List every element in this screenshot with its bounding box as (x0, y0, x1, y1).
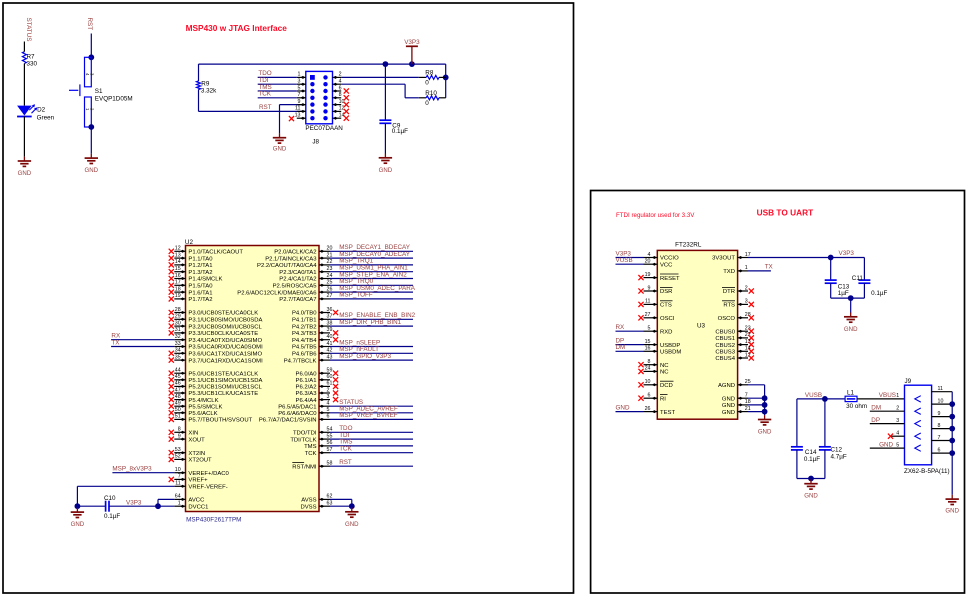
wire AVCC down (158, 499, 174, 506)
svg-text:18: 18 (175, 286, 181, 292)
svg-text:0.1µF: 0.1µF (804, 456, 820, 463)
svg-text:19: 19 (175, 293, 181, 299)
svg-text:MSP430F2617TPM: MSP430F2617TPM (186, 516, 241, 523)
svg-text:P5.5/SMCLK: P5.5/SMCLK (188, 404, 222, 410)
U2 pin 15 P1.3/TA2 (169, 266, 213, 276)
svg-text:XIN: XIN (188, 431, 198, 437)
title MSP430 w JTAG Interface (186, 23, 288, 33)
svg-text:DSR: DSR (660, 289, 672, 295)
svg-text:NC: NC (660, 370, 669, 376)
svg-text:USBDM: USBDM (660, 350, 681, 356)
svg-text:DP: DP (871, 417, 880, 424)
U2 pin 34 P3.6/UCA1TXD/UCA1SIMO (169, 348, 263, 358)
svg-text:GND: GND (722, 396, 735, 402)
U3 pin 16 USBDM net DM (616, 344, 682, 355)
svg-text:7: 7 (745, 393, 748, 399)
svg-text:47: 47 (175, 387, 181, 393)
svg-text:L1: L1 (847, 390, 855, 397)
svg-text:EVQP1D05M: EVQP1D05M (95, 95, 133, 102)
U3 pin 13 CBUS2 (715, 339, 754, 349)
svg-text:2: 2 (896, 406, 899, 412)
svg-text:RST: RST (86, 18, 93, 31)
svg-text:48: 48 (175, 394, 181, 400)
U2 pin 16 P1.4/SMCLK (169, 273, 223, 283)
svg-text:4.7µF: 4.7µF (831, 454, 847, 461)
svg-text:4: 4 (648, 252, 651, 258)
svg-text:46: 46 (175, 381, 181, 387)
no-connect X J8 pin 13 (289, 116, 294, 121)
svg-text:GND: GND (722, 403, 735, 409)
connector J8 body (306, 71, 333, 123)
LED D2 (17, 104, 54, 121)
svg-text:P3.6/UCA1TXD/UCA1SIMO: P3.6/UCA1TXD/UCA1SIMO (188, 352, 262, 358)
U2 pin 58 RST/NMI net RST (292, 459, 413, 470)
svg-text:P5.7/TBOUTH/SVSOUT: P5.7/TBOUTH/SVSOUT (188, 418, 252, 424)
wire TX to U2 P3.5 (111, 339, 174, 346)
svg-text:8: 8 (339, 92, 342, 98)
svg-text:GND: GND (379, 167, 393, 174)
svg-text:26: 26 (645, 406, 651, 412)
svg-text:TDI/TCLK: TDI/TCLK (290, 437, 316, 443)
no-connect X J8 pins 6-14 (344, 88, 349, 120)
svg-text:7: 7 (298, 92, 301, 98)
svg-text:12: 12 (175, 246, 181, 252)
svg-text:60: 60 (327, 374, 333, 380)
svg-text:9: 9 (298, 99, 301, 105)
U3 pin 7 GND (722, 393, 768, 403)
U3 pin 21 GND (722, 406, 768, 416)
ground GND (LED) (18, 157, 32, 177)
svg-text:P5.6/ACLK: P5.6/ACLK (188, 411, 217, 417)
svg-text:P6.7/A7/DAC1/SVSIN: P6.7/A7/DAC1/SVSIN (259, 418, 317, 424)
U2 pin 4 P6.5/A5/DAC1 net STATUS (278, 399, 413, 410)
ground GND (J8) (273, 133, 287, 152)
svg-text:VBUS: VBUS (879, 392, 896, 399)
svg-text:28: 28 (175, 307, 181, 313)
svg-text:11: 11 (175, 481, 181, 487)
svg-text:CBUS0: CBUS0 (715, 329, 735, 335)
svg-text:P6.4/A4: P6.4/A4 (296, 398, 318, 404)
U3 pin 9 DSR (638, 285, 672, 295)
svg-text:14: 14 (175, 259, 181, 265)
svg-text:GND: GND (273, 146, 287, 153)
wire STATUS to R7 (23, 42, 25, 52)
wire TCK (258, 91, 297, 98)
svg-text:RX: RX (616, 324, 626, 331)
svg-text:330: 330 (27, 60, 38, 67)
wire J9 pin 2 DM (870, 405, 905, 412)
svg-text:TXD: TXD (723, 269, 735, 275)
svg-text:P1.3/TA2: P1.3/TA2 (188, 270, 212, 276)
svg-text:3: 3 (745, 299, 748, 305)
svg-text:GND: GND (85, 167, 99, 174)
svg-text:6: 6 (648, 393, 651, 399)
svg-text:AVCC: AVCC (188, 498, 205, 504)
capacitor C9 (379, 64, 408, 153)
svg-text:RST: RST (339, 459, 352, 466)
U3 pin 26 TEST net GND (616, 404, 676, 415)
U2 pin 44 P5.0/UCB1STE/UCA1CLK (169, 368, 259, 378)
svg-text:VUSB: VUSB (616, 257, 633, 264)
svg-text:D2: D2 (37, 106, 46, 113)
resistor R7 (22, 52, 37, 68)
svg-text:0: 0 (425, 100, 429, 107)
U2 pin 59 P6.0/A0 (296, 368, 339, 378)
svg-text:50: 50 (175, 407, 181, 413)
U3 pin 1 TXD net TX (723, 264, 773, 275)
svg-text:15: 15 (645, 339, 651, 345)
svg-text:1: 1 (896, 393, 899, 399)
svg-text:C10: C10 (104, 495, 116, 502)
U2 pin 32 P3.4/UCA0TXD/UCA0SIMO (174, 334, 262, 344)
svg-text:0.1µF: 0.1µF (392, 128, 408, 135)
wire C14/C12 bottom (797, 478, 825, 480)
U3 pin 25 AGND (718, 379, 765, 415)
svg-text:2: 2 (327, 387, 330, 393)
wire C10 left (77, 505, 105, 507)
svg-text:U2: U2 (185, 239, 194, 246)
svg-text:DM: DM (616, 344, 626, 351)
svg-text:2: 2 (745, 285, 748, 291)
wire RST to J8 pin 11 (199, 104, 306, 111)
svg-text:6: 6 (339, 85, 342, 91)
svg-text:31: 31 (175, 327, 181, 333)
connector J9 right shield pins (932, 386, 953, 453)
U2 pin 50 P5.6/ACLK (169, 407, 218, 417)
left sheet border (3, 3, 574, 593)
svg-text:11: 11 (938, 386, 944, 392)
resistor R9 (197, 64, 218, 111)
svg-text:V3P3: V3P3 (839, 250, 855, 257)
junction C13/C11 GND (848, 295, 854, 301)
svg-text:P5.2/UCB1SOMI/UCB1SCL: P5.2/UCB1SOMI/UCB1SCL (188, 385, 262, 391)
U2 pin 5 P6.6/A6/DAC0 net MSP_ADEC_AVREF (278, 406, 413, 417)
svg-text:P6.5/A5/DAC1: P6.5/A5/DAC1 (278, 404, 316, 410)
U3 pin 3 RTS (722, 299, 754, 309)
U2 pin 53 XT2IN (169, 447, 205, 457)
junction C12 tap (822, 396, 828, 402)
label J8 (312, 139, 319, 146)
svg-text:2: 2 (339, 72, 342, 78)
U3 pin 18 GND (722, 399, 768, 409)
svg-text:5: 5 (648, 326, 651, 332)
svg-text:44: 44 (175, 368, 181, 374)
svg-text:MSP_GPIO_V3P3: MSP_GPIO_V3P3 (339, 353, 391, 360)
connector J8 pins (295, 72, 345, 121)
svg-text:53: 53 (175, 447, 181, 453)
svg-text:51: 51 (175, 414, 181, 420)
svg-text:PEC07DAAN: PEC07DAAN (305, 125, 343, 132)
svg-text:7: 7 (178, 474, 181, 480)
wire D2 to GND (23, 117, 25, 157)
svg-text:0: 0 (425, 80, 429, 87)
svg-text:RST: RST (259, 104, 272, 111)
svg-text:P4.3/TB3: P4.3/TB3 (292, 331, 317, 337)
svg-text:5: 5 (896, 442, 899, 448)
svg-text:GND: GND (345, 521, 359, 528)
switch S1 (69, 54, 133, 130)
ground GND (C10) (71, 508, 85, 528)
svg-text:P6.0/A0: P6.0/A0 (296, 371, 318, 377)
svg-text:TCK: TCK (305, 451, 317, 457)
svg-text:DVSS: DVSS (300, 504, 316, 510)
U2 pin 64 AVCC (174, 494, 205, 504)
svg-text:4: 4 (896, 431, 899, 437)
U2 pin 35 P3.7/UCA1RXD/UCA1SOMI (169, 354, 263, 364)
ground GND (S1) (85, 154, 99, 174)
svg-text:5: 5 (298, 85, 301, 91)
svg-text:3.32k: 3.32k (201, 88, 217, 95)
svg-text:MSP430 w JTAG Interface: MSP430 w JTAG Interface (186, 23, 288, 33)
svg-text:P3.4/UCA0TXD/UCA0SIMO: P3.4/UCA0TXD/UCA0SIMO (188, 338, 262, 344)
svg-text:27: 27 (645, 312, 651, 318)
svg-text:17: 17 (175, 280, 181, 286)
U2 pin 24 P2.4/CA1/TA2 net MSP_STEP_ENA_AIN2 (279, 271, 413, 282)
svg-text:32: 32 (175, 334, 181, 340)
svg-text:GND: GND (18, 170, 32, 177)
J9 pin 4 no-connect (888, 431, 905, 439)
U2 pin 18 P1.6/TA1 (169, 286, 213, 296)
svg-text:MSP_DIR_PHB_BIN1: MSP_DIR_PHB_BIN1 (339, 319, 401, 326)
svg-text:VREF+: VREF+ (188, 478, 208, 484)
capacitor C13 (825, 258, 850, 299)
svg-text:P1.6/TA1: P1.6/TA1 (188, 290, 212, 296)
svg-text:VCCIO: VCCIO (660, 256, 679, 262)
wire MSP_8xV3P3 to U2 pin 10 (112, 466, 174, 473)
svg-text:MSP_TOFF: MSP_TOFF (339, 292, 373, 299)
U3 pin 2 DTR (722, 285, 754, 295)
wire RX to U2 P3.4 (111, 333, 174, 340)
svg-text:P3.2/UCB0SOMI/UCB0SCL: P3.2/UCB0SOMI/UCB0SCL (188, 324, 262, 330)
U2 pin 19 P1.7/TA2 (169, 293, 213, 303)
junction R8 right (443, 75, 449, 81)
svg-text:TDO/TDI: TDO/TDI (293, 431, 317, 437)
svg-text:AGND: AGND (718, 383, 735, 389)
svg-text:P1.5/TA0: P1.5/TA0 (188, 284, 213, 290)
resistor R10 (419, 90, 446, 107)
IC U2 body (185, 239, 319, 512)
svg-text:DM: DM (871, 405, 881, 412)
wire RST to S1 (90, 34, 92, 57)
svg-text:11: 11 (645, 299, 651, 305)
U2 pin 20 P2.0/ACLK/CA2 net MSP_DECAY1_BDECAY (274, 244, 413, 255)
svg-text:36: 36 (327, 307, 333, 313)
svg-text:64: 64 (175, 494, 181, 500)
svg-text:P4.1/TB1: P4.1/TB1 (292, 318, 317, 324)
power symbol V3P3 (404, 39, 420, 64)
svg-text:GND: GND (71, 521, 85, 528)
svg-text:R8: R8 (425, 70, 434, 77)
svg-text:V3P3: V3P3 (404, 39, 420, 46)
svg-text:P5.4/MCLK: P5.4/MCLK (188, 398, 218, 404)
note FTDI regulator used for 3.3V (616, 212, 695, 219)
svg-text:VREF-VEREF-: VREF-VEREF- (188, 485, 227, 491)
svg-text:DVCC1: DVCC1 (188, 504, 208, 510)
svg-text:49: 49 (175, 401, 181, 407)
svg-text:C14: C14 (805, 449, 817, 456)
U2 pin 12 P1.0/TACLK/CAOUT (169, 246, 244, 256)
U3 pin 10 DCD (638, 379, 673, 389)
svg-text:RI: RI (660, 396, 666, 402)
wire R7 to D2 (23, 64, 25, 106)
svg-text:C12: C12 (831, 446, 843, 453)
svg-text:4: 4 (339, 79, 342, 85)
svg-text:P4.6/TB6: P4.6/TB6 (292, 352, 317, 358)
svg-text:OSCO: OSCO (718, 316, 736, 322)
wire down to GND (C13/C11) (850, 298, 852, 313)
U2 pin 6 P6.7/A7/DAC1/SVSIN net MSP_VREF_BVREF (259, 412, 413, 423)
svg-text:24: 24 (645, 366, 651, 372)
svg-text:3: 3 (327, 394, 330, 400)
capacitor C12 (819, 399, 847, 479)
svg-text:USBDP: USBDP (660, 343, 680, 349)
svg-text:P2.6/ADC12CLK/DMAE0/CA6: P2.6/ADC12CLK/DMAE0/CA6 (237, 290, 317, 296)
U2 pin 26 P2.6/ADC12CLK/DMAE0/CA6 net MSP_USM0_ADEC_PARA (237, 285, 416, 296)
U2 pin 40 P4.4/TB4 (292, 334, 338, 344)
svg-text:TCK: TCK (339, 446, 352, 453)
svg-text:CBUS1: CBUS1 (715, 336, 735, 342)
svg-text:1: 1 (745, 265, 748, 271)
svg-text:13: 13 (295, 113, 301, 119)
svg-text:CBUS3: CBUS3 (715, 350, 735, 356)
U3 pin 14 CBUS3 (715, 346, 754, 356)
svg-text:P4.7/TBCLK: P4.7/TBCLK (284, 358, 317, 364)
svg-text:P5.3/UCB1CLK/UCA1STE: P5.3/UCB1CLK/UCA1STE (188, 391, 258, 397)
svg-text:TEST: TEST (660, 410, 675, 416)
wire J9 pin 3 DP (870, 417, 905, 424)
svg-text:4: 4 (327, 401, 330, 407)
inductor L1 (845, 390, 867, 411)
svg-text:XOUT: XOUT (188, 437, 205, 443)
U2 pin 30 P3.2/UCB0SOMI/UCB0SCL (169, 320, 263, 330)
svg-text:P3.1/UCB0SIMO/UCB0SDA: P3.1/UCB0SIMO/UCB0SDA (188, 318, 262, 324)
svg-text:P6.6/A6/DAC0: P6.6/A6/DAC0 (278, 411, 317, 417)
svg-text:P3.0/UCB0STE/UCA0CLK: P3.0/UCB0STE/UCA0CLK (188, 311, 258, 317)
U2 pin 49 P5.5/SMCLK (169, 401, 223, 411)
U2 pin 55 TDI/TCLK net TDI (290, 432, 413, 443)
U2 pin 22 P2.2/CAOUT/TA0/CA4 net MSP_TRQ1 (257, 258, 413, 269)
svg-text:40: 40 (327, 334, 333, 340)
svg-text:39: 39 (327, 327, 333, 333)
svg-text:10: 10 (645, 379, 651, 385)
svg-text:P1.2/TA1: P1.2/TA1 (188, 263, 212, 269)
ground GND (U2) (345, 508, 359, 528)
svg-text:1: 1 (178, 501, 181, 507)
svg-text:DTR: DTR (723, 289, 735, 295)
svg-text:P6.1/A1: P6.1/A1 (296, 378, 317, 384)
wire V3P3 rail (199, 63, 446, 65)
U2 pin 33 P3.5/UCA0RXD/UCA0SOMI (174, 341, 263, 351)
wire TDI (258, 77, 297, 84)
svg-text:STATUS: STATUS (25, 18, 32, 42)
U3 pin 27 OSCI (638, 312, 674, 322)
svg-text:10: 10 (938, 398, 944, 404)
wire J9 shield bus (951, 392, 953, 495)
svg-text:30: 30 (175, 320, 181, 326)
U2 pin 3 P6.4/A4 (296, 394, 339, 404)
ground GND (C14/C12) (804, 479, 818, 499)
U2 pin 2 P6.3/A3 (296, 387, 339, 397)
svg-text:1µF: 1µF (838, 290, 849, 297)
U2 pin 7 VREF+ (169, 474, 208, 484)
U2 pin 43 P4.7/TBCLK net MSP_GPIO_V3P3 (284, 353, 413, 364)
U2 pin 25 P2.5/ROSC/CA5 net MSP_TRQ0 (273, 278, 413, 289)
svg-text:P3.5/UCA0RXD/UCA0SOMI: P3.5/UCA0RXD/UCA0SOMI (188, 345, 263, 351)
junction C14/C12 GND (808, 476, 814, 482)
junction AVSS/DVSS (349, 503, 355, 509)
wire rail down to R8/R10 (445, 64, 447, 98)
svg-text:1: 1 (298, 72, 301, 78)
svg-text:U3: U3 (697, 323, 706, 330)
svg-text:30 ohm: 30 ohm (846, 403, 867, 410)
U2 pin 21 P2.1/TAINCLK/CA3 net MSP_DECAY0_ADECAY (265, 251, 413, 262)
svg-text:VUSB: VUSB (805, 392, 822, 399)
U3 pin 12 CBUS4 (715, 352, 754, 362)
svg-text:29: 29 (175, 314, 181, 320)
svg-text:P4.2/TB2: P4.2/TB2 (292, 324, 317, 330)
svg-text:16: 16 (645, 346, 651, 352)
label FT232RL (675, 241, 702, 248)
svg-text:RTS: RTS (723, 303, 735, 309)
svg-text:FT232RL: FT232RL (675, 241, 702, 248)
ground GND (U3) (758, 415, 772, 435)
U2 pin 27 P2.7/TA0/CA7 net MSP_TOFF (279, 292, 413, 303)
junction C9 tap (383, 61, 389, 67)
U3 pin 8 NC (638, 359, 669, 369)
svg-text:TMS: TMS (304, 444, 317, 450)
connector J9 left chevrons (915, 396, 921, 452)
svg-text:15: 15 (175, 266, 181, 272)
svg-text:P2.3/CA0/TA1: P2.3/CA0/TA1 (279, 270, 316, 276)
svg-text:P5.1/UCB1SIMO/UCB1SDA: P5.1/UCB1SIMO/UCB1SDA (188, 378, 262, 384)
wire TDO (258, 70, 297, 77)
svg-text:TX: TX (765, 264, 774, 271)
svg-text:GND: GND (945, 508, 959, 515)
svg-text:GND: GND (844, 326, 858, 333)
svg-text:8: 8 (178, 427, 181, 433)
U2 pin 57 TCK net TCK (305, 446, 413, 457)
U2 pin 31 P3.3/UCB0CLK/UCA0STE (169, 327, 259, 337)
svg-text:P2.2/CAOUT/TA0/CA4: P2.2/CAOUT/TA0/CA4 (257, 263, 317, 269)
svg-text:ZX62-B-5PA(11): ZX62-B-5PA(11) (904, 468, 950, 475)
wire J8 pin 9 to GND (280, 105, 306, 134)
U3 pin 5 RXD net RX (616, 324, 673, 335)
U3 pin 15 USBDP net DP (616, 337, 681, 348)
svg-text:61: 61 (327, 381, 333, 387)
wire 3V3OUT to V3P3 (748, 250, 864, 257)
svg-text:RESET: RESET (660, 276, 680, 282)
U2 pin 62 AVSS (301, 494, 352, 507)
net label STATUS (25, 18, 32, 42)
svg-text:P2.4/CA1/TA2: P2.4/CA1/TA2 (279, 277, 316, 283)
svg-text:9: 9 (938, 411, 941, 417)
wire U2 pin 11 to C10 node (77, 486, 174, 506)
svg-text:P3.7/UCA1RXD/UCA1SOMI: P3.7/UCA1RXD/UCA1SOMI (188, 358, 263, 364)
svg-text:8: 8 (648, 359, 651, 365)
U2 pin 11 VREF-VEREF- (174, 481, 227, 491)
svg-text:OSCI: OSCI (660, 316, 675, 322)
U3 pin 28 OSCO (718, 312, 754, 322)
junction C13 tap (828, 255, 834, 261)
svg-text:V3P3: V3P3 (126, 500, 142, 507)
svg-text:13: 13 (175, 252, 181, 258)
svg-text:P2.0/ACLK/CA2: P2.0/ACLK/CA2 (274, 250, 316, 256)
svg-text:DCD: DCD (660, 383, 673, 389)
svg-text:R10: R10 (425, 90, 437, 97)
svg-text:0.1µF: 0.1µF (104, 513, 120, 520)
svg-text:NC: NC (660, 363, 669, 369)
label PEC07DAAN (305, 125, 343, 132)
